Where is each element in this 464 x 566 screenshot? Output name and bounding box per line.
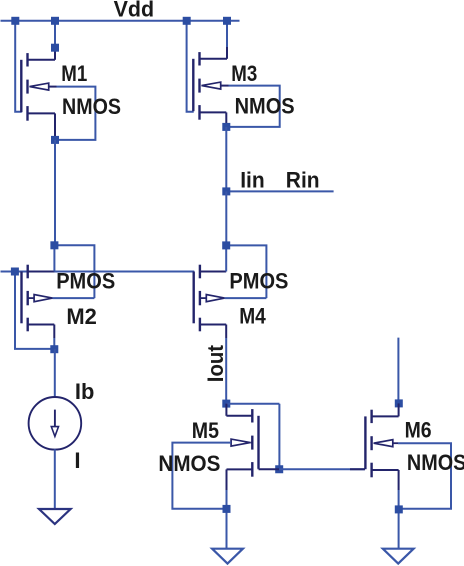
wire M1 drain from Vdd (54, 21, 56, 48)
wire M3 bulk to source (226, 86, 279, 127)
transistor M1 drain stub (28, 59, 56, 61)
current source Ib arrow shaft (54, 410, 56, 427)
junction M2 drain / gate tie (50, 345, 58, 353)
svg-text:Vdd: Vdd (114, 0, 155, 21)
current source Ib arrow head (51, 427, 58, 437)
junction M6 drain (395, 399, 403, 407)
transistor M1 bulk channel tick (26, 80, 28, 94)
transistor M2 drain pin (53, 325, 55, 339)
wire M2 source pin up to junction (53, 245, 55, 271)
transistor M2 gate bar (20, 272, 22, 324)
transistor M4 gate bar (192, 272, 194, 324)
svg-text:NMOS: NMOS (235, 93, 295, 118)
svg-text:M5: M5 (192, 418, 219, 443)
transistor M5 bulk arrow (points into channel) (231, 439, 250, 446)
svg-text:M4: M4 (239, 304, 266, 329)
transistor M6 bulk channel tick (370, 436, 372, 450)
transistor M5 drain stub (226, 415, 252, 417)
svg-text:M1: M1 (61, 61, 87, 86)
wire M5 bulk to ground tie (172, 443, 231, 509)
wire Vdd rail (1, 20, 240, 22)
transistor M5 drain pin (225, 404, 227, 416)
transistor M3 bulk arrow (points into channel) (202, 82, 221, 89)
wire M2 gate down-left to drain (diode tie) (15, 272, 54, 349)
svg-text:Iin: Iin (240, 167, 265, 192)
transistor M5 drain channel tick (251, 409, 253, 422)
wire M6 drain open stub (397, 338, 399, 404)
transistor M5 gate bar (257, 416, 259, 468)
junction Iout node (222, 400, 230, 408)
ground symbol below M5 (212, 549, 243, 564)
transistor M5 gate lead (257, 468, 259, 469)
transistor M1 drain channel tick (26, 53, 28, 66)
transistor M6 gate bar (364, 416, 366, 468)
junction M2 gate node (11, 268, 19, 276)
junction M2 source node (50, 241, 58, 249)
wire gate rail left segment through M2 (1, 271, 195, 273)
junction Vdd/M1 gate (11, 17, 19, 25)
wire M3 drain from Vdd (226, 21, 228, 48)
svg-text:NMOS: NMOS (62, 94, 121, 119)
transistor M3 source stub (200, 111, 227, 113)
wire down to M5 gate tie (278, 404, 280, 470)
svg-text:Iout: Iout (203, 344, 228, 382)
transistor M2 bulk arrow (points out of channel) (28, 297, 34, 299)
transistor M2 drain stub (28, 324, 55, 326)
transistor M1 bulk arrow (points into channel) (30, 83, 49, 90)
junction Vdd/M3 drain (223, 17, 231, 25)
wire M1 source down to M2 source junction (54, 140, 56, 245)
wire M2 drain junction down to current source (54, 349, 56, 397)
transistor M2 bulk channel tick (27, 291, 29, 305)
svg-text:NMOS: NMOS (158, 451, 220, 476)
junction M5 gate/drain tie (275, 465, 283, 473)
junction M3 source node (222, 123, 230, 131)
wire Iout node right (226, 403, 279, 405)
transistor M4 drain pin (225, 325, 227, 339)
transistor M4 bulk channel tick (199, 291, 201, 305)
svg-text:I: I (74, 448, 80, 473)
transistor M5 source channel tick (251, 462, 253, 477)
transistor M1 source channel tick (26, 106, 28, 121)
transistor M4 drain channel tick (bottom) (199, 318, 201, 332)
wire M4 bulk lead (225, 297, 267, 299)
transistor M1 source stub (28, 112, 56, 114)
junction Vdd/M3 gate (183, 17, 191, 25)
wire M6 source down (398, 490, 400, 549)
wire M6 bulk to ground tie (398, 443, 451, 509)
wire M2 drain down to diode junction (53, 338, 55, 349)
transistor M6 source pin (398, 470, 400, 490)
junction M6 source/bulk node (395, 505, 403, 513)
transistor M3 source pin (225, 112, 227, 127)
svg-text:Rin: Rin (286, 167, 320, 192)
wire Rin stub to the right (226, 190, 333, 192)
transistor M2 source stub overlay (28, 271, 55, 273)
transistor M5 source pin (226, 469, 228, 490)
svg-text:NMOS: NMOS (407, 450, 464, 475)
transistor M5 source stub (227, 468, 253, 470)
transistor M4 source stub (200, 271, 226, 273)
wire M1 bulk to source (55, 87, 95, 140)
transistor M6 bulk arrow (points into channel) (374, 440, 393, 447)
wire M5 source down (226, 490, 228, 549)
transistor M6 drain pin (398, 403, 400, 416)
transistor M6 bulk lead (392, 442, 398, 444)
wire current source to ground (54, 449, 56, 508)
junction M5 source/bulk node (223, 505, 231, 513)
ground symbol below Ib (39, 509, 71, 524)
wire M4 drain down to Iout node (225, 338, 227, 404)
transistor M4 source channel tick (top) (199, 265, 201, 279)
transistor M6 drain stub (372, 415, 399, 417)
junction Vdd/M1 drain (51, 17, 59, 25)
transistor M4 drain stub (200, 324, 226, 326)
junction M1 source node (51, 136, 59, 144)
transistor M3 drain channel tick (198, 52, 200, 65)
transistor M3 source channel tick (198, 105, 200, 120)
transistor M5 bulk lead (251, 442, 253, 444)
transistor M3 bulk lead (220, 85, 229, 87)
wire M2 bulk to source tie (54, 245, 94, 298)
transistor M6 source stub (372, 469, 399, 471)
junction Iin node (222, 187, 230, 195)
transistor M1 gate bar (20, 60, 22, 112)
wire M1 gate from Vdd (15, 21, 22, 112)
svg-text:PMOS: PMOS (229, 269, 288, 294)
junction M4 source node (222, 241, 230, 249)
transistor M6 source channel tick (370, 463, 372, 478)
transistor M1 drain pin (54, 47, 56, 60)
wire gate line M5 to M6 (279, 468, 365, 470)
wire Iin node down to M4 source (225, 191, 227, 245)
transistor M3 drain pin (226, 47, 228, 59)
transistor M6 drain channel tick (370, 410, 372, 423)
transistor M1 source pin (54, 113, 56, 139)
svg-text:Ib: Ib (75, 379, 95, 404)
svg-text:M6: M6 (405, 417, 432, 442)
transistor M1 bulk lead (48, 86, 57, 88)
transistor M3 bulk channel tick (198, 79, 200, 93)
transistor M2 drain channel tick (bottom) (27, 318, 29, 332)
wire M2 bulk lead (53, 297, 95, 299)
current source Ib circle (29, 397, 82, 450)
junction M1 drain wire (51, 44, 59, 52)
transistor M6 gate lead (364, 468, 366, 469)
transistor M5 bulk channel tick (251, 436, 253, 450)
svg-text:M2: M2 (66, 304, 97, 329)
ground symbol below M6 (383, 549, 414, 564)
svg-text:M3: M3 (231, 61, 257, 86)
transistor M3 gate bar (192, 59, 194, 111)
transistor M4 bulk arrow (points out of channel) (200, 297, 206, 299)
wire M3 source down to Iin node (225, 127, 227, 191)
svg-text:PMOS: PMOS (56, 269, 115, 294)
transistor M3 drain stub (200, 58, 228, 60)
transistor M2 source channel tick (top) (27, 265, 29, 279)
wire M4 source pin up to junction (225, 245, 227, 271)
wire M3 gate from Vdd (187, 21, 194, 112)
wire M4 bulk to source tie (226, 245, 266, 298)
